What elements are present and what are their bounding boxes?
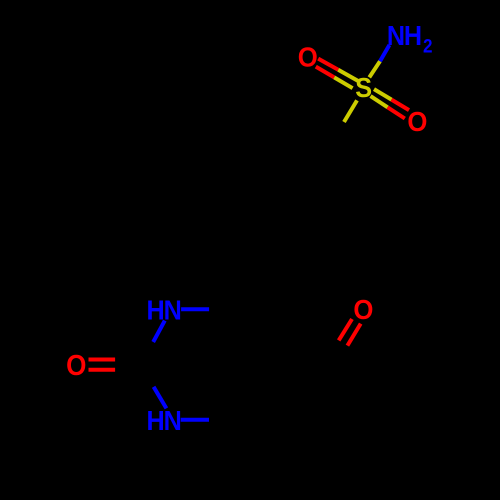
svg-text:S: S	[355, 72, 372, 104]
svg-text:N: N	[164, 294, 182, 326]
svg-text:O: O	[298, 41, 318, 72]
svg-text:O: O	[353, 294, 373, 325]
svg-text:H: H	[404, 20, 422, 52]
svg-text:H: H	[147, 294, 165, 326]
svg-text:O: O	[407, 106, 427, 137]
svg-text:N: N	[164, 405, 182, 437]
svg-text:2: 2	[423, 36, 433, 57]
svg-text:N: N	[387, 20, 405, 52]
svg-text:O: O	[66, 349, 86, 382]
svg-text:H: H	[147, 405, 165, 437]
